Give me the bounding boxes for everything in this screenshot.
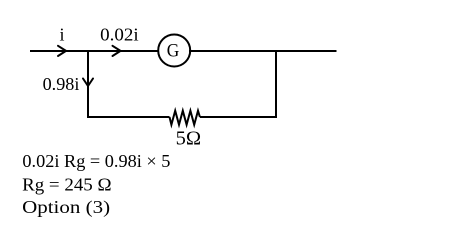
svg-text:G: G [167, 41, 180, 62]
svg-text:Rg = 245 Ω: Rg = 245 Ω [22, 175, 112, 195]
svg-text:Option (3): Option (3) [22, 197, 110, 217]
arrow: shunt current 0.98i [83, 79, 93, 87]
svg-text:0.98i: 0.98i [43, 74, 80, 94]
galvanometer G [158, 35, 190, 67]
svg-text:0.02i Rg = 0.98i × 5: 0.02i Rg = 0.98i × 5 [22, 151, 170, 171]
svg-text:i: i [59, 25, 64, 45]
wire: resistor to node B riser [200, 116, 277, 118]
wire: galvanometer to node B [189, 50, 277, 52]
arrow: galvanometer branch current 0.02i [113, 46, 121, 56]
svg-text:0.02i: 0.02i [100, 25, 139, 45]
wire: node A to galvanometer [88, 50, 160, 52]
resistor R shunt 5 ohm zigzag [170, 111, 200, 125]
arrow: total current i [58, 46, 66, 56]
wire: bottom conductor from shunt branch to resistor [87, 116, 170, 118]
wire: riser up to node B [275, 50, 277, 118]
wire: input lead from left to node A [30, 50, 89, 52]
wire: output lead from node B to right [276, 50, 337, 52]
wire: shunt branch down from node A [87, 50, 89, 118]
svg-text:5Ω: 5Ω [176, 127, 202, 149]
